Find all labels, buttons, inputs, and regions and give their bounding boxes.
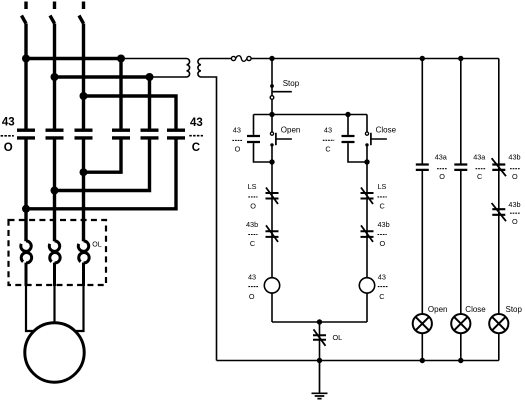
svg-text:O: O (380, 239, 386, 248)
svg-text:O: O (512, 172, 518, 181)
svg-text:OL: OL (92, 242, 101, 249)
svg-text:C: C (379, 292, 384, 301)
svg-text:43: 43 (190, 117, 203, 129)
svg-text:43: 43 (248, 272, 256, 281)
svg-text:O: O (250, 202, 256, 211)
svg-text:43b: 43b (378, 220, 390, 229)
svg-text:C: C (380, 202, 385, 211)
svg-text:Open: Open (281, 126, 301, 135)
svg-text:Close: Close (376, 126, 397, 135)
svg-text:LS: LS (378, 182, 387, 191)
svg-text:Close: Close (465, 305, 486, 314)
svg-text:43b: 43b (246, 220, 258, 229)
svg-text:Open: Open (428, 305, 448, 314)
svg-text:43: 43 (233, 126, 241, 135)
svg-text:O: O (249, 292, 255, 301)
svg-text:O: O (4, 142, 13, 154)
svg-text:43: 43 (378, 272, 386, 281)
svg-text:C: C (250, 239, 255, 248)
svg-text:43a: 43a (435, 153, 448, 162)
svg-text:O: O (235, 144, 241, 153)
svg-text:43: 43 (2, 117, 15, 129)
svg-text:O: O (512, 217, 518, 226)
svg-text:43b: 43b (508, 153, 520, 162)
svg-text:LS: LS (248, 182, 257, 191)
svg-text:C: C (477, 172, 482, 181)
svg-text:43: 43 (324, 126, 332, 135)
svg-text:Stop: Stop (506, 305, 523, 314)
svg-text:43a: 43a (473, 153, 486, 162)
svg-text:Stop: Stop (283, 79, 300, 88)
svg-text:C: C (192, 142, 200, 154)
svg-text:O: O (439, 172, 445, 181)
svg-text:OL: OL (333, 333, 343, 342)
svg-text:C: C (325, 144, 330, 153)
svg-text:43b: 43b (508, 200, 520, 209)
